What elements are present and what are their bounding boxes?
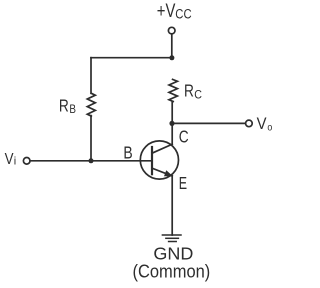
- label Vi: [5, 151, 17, 168]
- svg-text:CC: CC: [175, 7, 192, 22]
- node VCC junction: [169, 55, 174, 60]
- label RC: [184, 81, 202, 102]
- svg-text:B: B: [69, 102, 76, 116]
- svg-text:C: C: [194, 87, 202, 101]
- ground: [162, 235, 181, 242]
- node base junction: [89, 158, 94, 163]
- svg-text:C: C: [179, 126, 189, 146]
- svg-text:i: i: [14, 156, 16, 168]
- wire VCC drop: [171, 34, 173, 58]
- svg-text:(Common): (Common): [133, 261, 211, 281]
- node collector junction: [169, 121, 174, 126]
- svg-text:o: o: [267, 123, 272, 134]
- label RB: [59, 96, 76, 117]
- svg-text:V: V: [257, 114, 267, 133]
- svg-text:+V: +V: [157, 1, 176, 22]
- wire left vertical lower: [90, 116, 92, 161]
- terminal Vi: [23, 158, 30, 165]
- wire top horizontal: [91, 57, 172, 59]
- resistor RC: [169, 79, 177, 101]
- svg-text:R: R: [184, 81, 194, 101]
- wire collector vertical: [171, 123, 173, 144]
- wire left vertical upper: [90, 58, 92, 94]
- svg-text:V: V: [5, 151, 14, 168]
- label Vo: [257, 114, 273, 133]
- wire base input: [30, 160, 152, 162]
- terminal Vo: [246, 120, 253, 127]
- power +VCC label: [157, 1, 192, 22]
- wire output horizontal: [172, 122, 246, 124]
- wire collector upper: [171, 102, 173, 124]
- svg-text:E: E: [179, 173, 187, 193]
- resistor RB: [87, 93, 95, 116]
- terminal +VCC: [168, 27, 175, 34]
- transistor Q1: [140, 141, 178, 179]
- svg-text:R: R: [59, 96, 69, 116]
- svg-text:B: B: [123, 142, 132, 162]
- wire emitter vertical: [171, 176, 173, 235]
